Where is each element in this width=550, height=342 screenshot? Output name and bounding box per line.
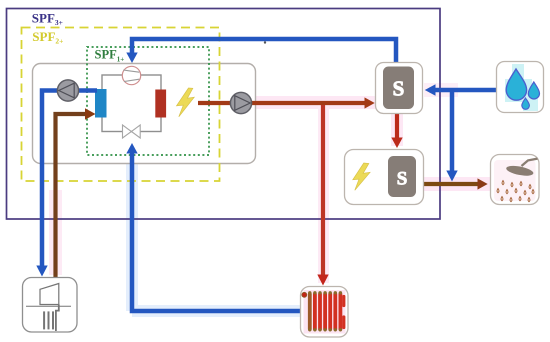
svg-text:S: S xyxy=(393,77,405,101)
svg-text:SPF3+: SPF3+ xyxy=(32,10,63,27)
svg-text:SPF2+: SPF2+ xyxy=(32,29,63,46)
svg-text:SPF1+: SPF1+ xyxy=(95,48,125,64)
svg-text:S: S xyxy=(397,169,408,190)
